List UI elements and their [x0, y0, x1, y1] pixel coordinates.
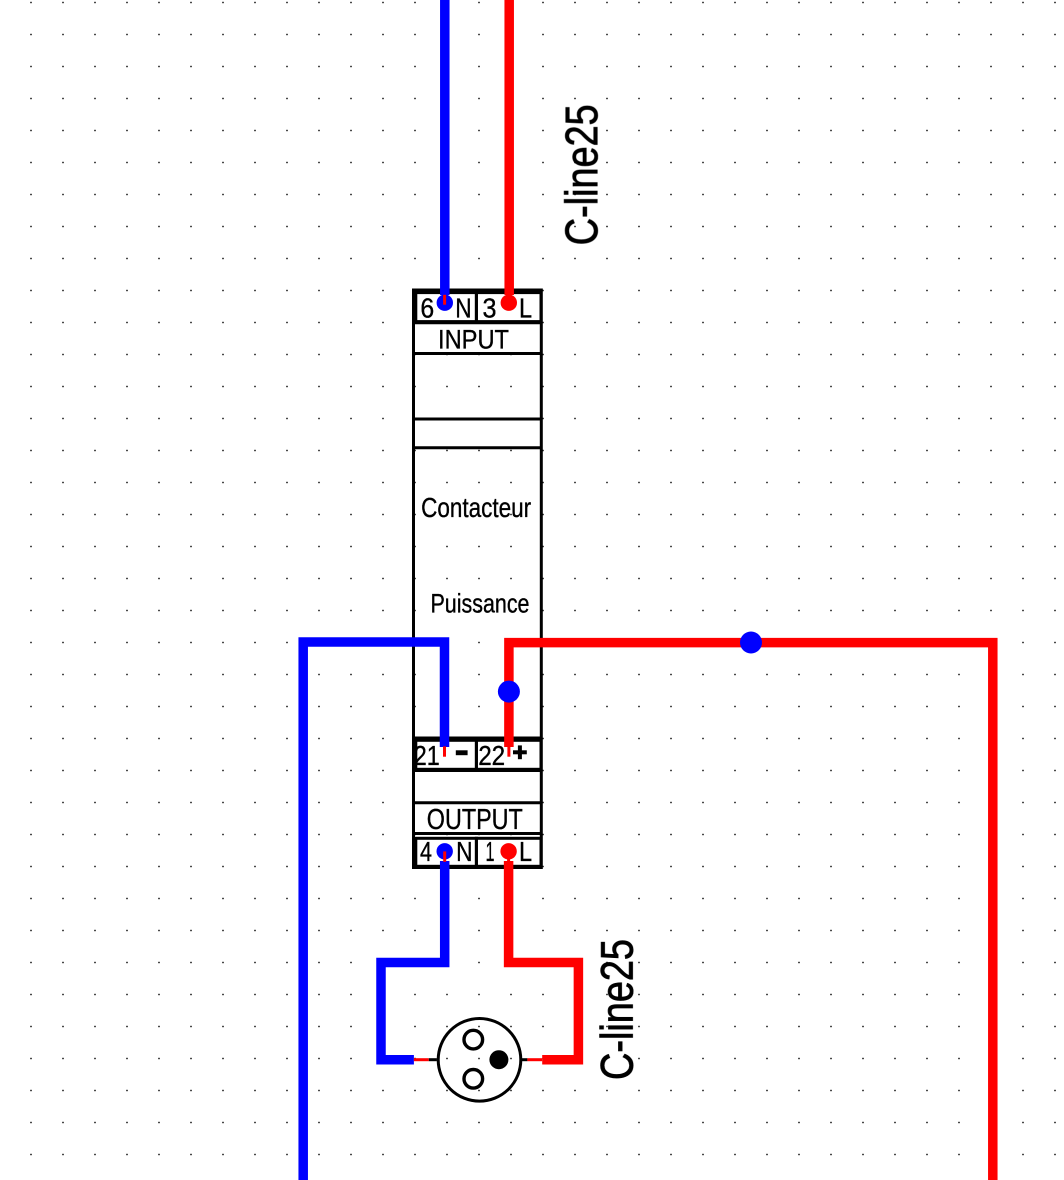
svg-text:C-line25: C-line25 — [556, 104, 607, 245]
pin stub terminal 21 — [443, 746, 446, 756]
pin stub terminal 3 — [508, 295, 511, 305]
socket earth contact (filled) — [489, 1050, 508, 1069]
socket left pin lead — [429, 1058, 437, 1061]
pin stub terminal 1 — [507, 851, 510, 861]
terminal dot 4/N — [437, 843, 453, 859]
minus polarity mark — [456, 750, 468, 755]
svg-text:4: 4 — [420, 836, 432, 867]
svg-text:L: L — [519, 836, 532, 867]
contactor U1 body outline — [414, 290, 542, 868]
svg-text:Contacteur: Contacteur — [421, 492, 531, 523]
svg-text:OUTPUT: OUTPUT — [427, 804, 523, 836]
terminal dot 6/N — [437, 295, 453, 311]
input terminal cells 6/N and 3/L — [416, 293, 541, 322]
svg-text:22: 22 — [478, 740, 505, 771]
pin stub terminal 4 — [443, 851, 446, 861]
svg-text:3: 3 — [483, 292, 497, 323]
socket left pin stub — [414, 1058, 429, 1061]
socket right pin lead — [521, 1058, 528, 1061]
svg-text:N: N — [455, 292, 471, 323]
svg-text:1: 1 — [486, 836, 495, 867]
svg-text:21: 21 — [414, 740, 440, 771]
plus polarity mark — [513, 745, 527, 759]
output terminal cells 4/N and 1/L — [416, 838, 541, 866]
svg-text:INPUT: INPUT — [438, 324, 509, 354]
pin stub terminal 22 — [507, 746, 510, 756]
socket contact bottom-left — [464, 1070, 483, 1089]
svg-text:Puissance: Puissance — [431, 588, 530, 618]
svg-text:N: N — [456, 836, 472, 867]
svg-text:C-line25: C-line25 — [592, 939, 643, 1080]
coil terminal cells 21/- and 22/+ — [416, 740, 541, 769]
socket contact top-left — [464, 1030, 483, 1049]
svg-text:6: 6 — [420, 292, 434, 323]
terminal dot 3/L — [501, 295, 517, 311]
wire from terminal 21 (blue) to bottom edge — [303, 642, 444, 1180]
junction on red bus at x=751 — [740, 632, 762, 654]
svg-text:L: L — [519, 292, 532, 323]
wire output N: terminal 4 to socket left pin (blue) — [381, 861, 445, 1060]
socket P1 (2P+T outlet) body — [438, 1019, 521, 1102]
wire output L: terminal 1 to socket right pin (red) — [509, 861, 579, 1060]
terminal dot 1/L — [500, 843, 516, 859]
socket right pin stub — [527, 1058, 542, 1061]
wire from terminal 22 (red) to right and bottom edge — [509, 643, 993, 1180]
wire L input (red, top edge to terminal 3/L) — [504, 0, 514, 295]
junction on wire to terminal 22 — [498, 681, 520, 703]
pin stub terminal 6 — [443, 295, 446, 305]
wire N input (blue, top edge to terminal 6/N) — [440, 0, 450, 295]
